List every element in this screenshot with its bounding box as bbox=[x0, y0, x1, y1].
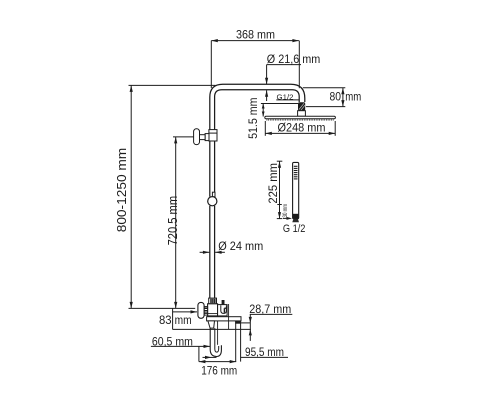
left reference drop line bbox=[172, 308, 174, 329]
dim 28.7 underline bbox=[250, 313, 292, 315]
mixer knob bbox=[198, 302, 204, 318]
dim 83 line bbox=[173, 311, 197, 313]
svg-text:720.5 mm: 720.5 mm bbox=[166, 196, 180, 246]
dim 248 left extension bbox=[264, 121, 266, 136]
dim 368 left extension bbox=[210, 41, 212, 88]
svg-text:mm: mm bbox=[345, 89, 361, 103]
diverter lever tab bbox=[222, 300, 225, 305]
dim 21.6 lower leader bbox=[266, 90, 268, 101]
dim 80 bottom extension bbox=[306, 106, 345, 108]
spout mount taper bbox=[208, 321, 215, 328]
dim 24 right arrow line bbox=[215, 251, 225, 253]
svg-text:Ø 24 mm: Ø 24 mm bbox=[218, 239, 263, 253]
hex collar flats bbox=[211, 299, 215, 303]
svg-text:G1/2: G1/2 bbox=[277, 92, 294, 101]
arrow 24 left bbox=[203, 251, 210, 254]
svg-text:80: 80 bbox=[330, 89, 342, 103]
clamp knob bbox=[194, 129, 200, 145]
slider ring bbox=[208, 197, 217, 206]
dim 30 foot leader bbox=[283, 217, 288, 219]
dim 51.5 line bbox=[262, 104, 264, 117]
dim 800-1250 line bbox=[130, 85, 132, 308]
arrow 720.5 top bbox=[174, 137, 177, 144]
diverter lever U bbox=[221, 305, 227, 313]
wall post right edge bbox=[240, 321, 242, 362]
dim 95.5 underline bbox=[241, 356, 288, 358]
dim 21.6 underline bbox=[267, 64, 301, 66]
svg-text:225 mm: 225 mm bbox=[266, 163, 280, 204]
dim 28.7 vertical line bbox=[249, 314, 251, 341]
arrow 800-1250 bottom bbox=[130, 302, 133, 309]
arrow 368 right bbox=[292, 39, 299, 42]
svg-text:51.5 mm: 51.5 mm bbox=[246, 97, 260, 138]
hand shower body bbox=[293, 162, 299, 218]
arrow 24 right bbox=[215, 251, 222, 254]
svg-text:mm: mm bbox=[175, 313, 192, 327]
shelf plate bbox=[207, 317, 241, 321]
slider clamp block bbox=[209, 130, 217, 141]
arrow 60.5 bbox=[204, 345, 211, 348]
dim 800-1250 bottom extension bbox=[129, 307, 196, 309]
dim 80 line bbox=[342, 88, 344, 107]
diverter rod line bbox=[217, 321, 219, 345]
mixer valve body bbox=[208, 304, 218, 316]
svg-text:G 1/2: G 1/2 bbox=[283, 223, 306, 235]
svg-text:60,5 mm: 60,5 mm bbox=[152, 335, 193, 349]
svg-text:800-1250 mm: 800-1250 mm bbox=[114, 148, 129, 232]
arrow 248 right bbox=[329, 132, 336, 135]
svg-text:83: 83 bbox=[159, 313, 172, 327]
arrow 28.7 down bbox=[249, 317, 252, 323]
arrow 720.5 bottom bbox=[174, 302, 177, 309]
dim 225 top crossbar bbox=[277, 160, 283, 162]
spout inner curve bbox=[215, 328, 219, 352]
arrow 225 bottom bbox=[278, 212, 281, 219]
dim 225 line bbox=[279, 161, 281, 218]
dim 30 tick bbox=[277, 204, 282, 206]
svg-text:Ø248 mm: Ø248 mm bbox=[278, 123, 326, 135]
arrow 248 left bbox=[265, 132, 272, 135]
arrow 80 top bbox=[341, 88, 344, 95]
svg-text:28,7 mm: 28,7 mm bbox=[249, 302, 291, 316]
wire riser middle segment bbox=[210, 141, 215, 197]
arrow 28.7 up bbox=[249, 329, 252, 335]
arrow 83 bbox=[191, 310, 198, 313]
hand shower spray stripes bbox=[294, 166, 298, 179]
arrow 95.5 bbox=[205, 356, 212, 359]
dim 80 top extension bbox=[303, 87, 345, 89]
mixer left stem bbox=[204, 307, 208, 316]
chamber side reference line bbox=[228, 304, 230, 329]
arrow 176 left bbox=[199, 360, 206, 363]
dim 800-1250 top extension bbox=[129, 84, 216, 86]
arrow 368 left bbox=[211, 39, 218, 42]
mixer hex collar bbox=[209, 298, 217, 304]
dim 51.5 top extension bbox=[261, 103, 298, 105]
dim 368 line bbox=[211, 40, 299, 42]
arrow 225 top bbox=[278, 161, 281, 168]
dim 24 left arrow line bbox=[200, 251, 210, 253]
dim 176 left extension bbox=[198, 346, 200, 361]
svg-text:95,5 mm: 95,5 mm bbox=[245, 345, 284, 359]
lower reference line bbox=[173, 328, 251, 330]
arrow 21.6 up bbox=[265, 90, 268, 97]
dim 28.7 upper reference bbox=[241, 322, 250, 324]
dim 176 line bbox=[199, 361, 236, 363]
svg-text:176 mm: 176 mm bbox=[201, 363, 237, 377]
diverter chamber bbox=[218, 305, 228, 316]
slider ring tab bbox=[212, 192, 215, 197]
G1/2 head underline bbox=[276, 99, 299, 101]
wire riser+arm outer outline bbox=[210, 84, 305, 129]
shower head disc bbox=[265, 116, 336, 119]
dim 368 right extension bbox=[298, 41, 300, 89]
shower arm ball joint bbox=[298, 102, 305, 111]
arrow 21.6 down bbox=[265, 78, 268, 85]
arrow 800-1250 top bbox=[130, 85, 133, 92]
dim 720.5 line bbox=[175, 137, 177, 309]
hose bracket bbox=[235, 321, 240, 324]
svg-text:Ø 21,6 mm: Ø 21,6 mm bbox=[267, 52, 321, 66]
clamp flange bbox=[205, 134, 209, 141]
dim 60.5 underline bbox=[151, 345, 210, 347]
dim 720.5 top extension bbox=[173, 136, 193, 138]
arrow 176 right bbox=[230, 360, 237, 363]
dim 248 line bbox=[265, 132, 335, 134]
shower head swivel nut bbox=[298, 111, 306, 117]
stem ribs bbox=[204, 308, 208, 313]
hand shower bottom band bbox=[293, 214, 299, 219]
wire riser+arm inner outline bbox=[215, 90, 300, 130]
arrow 51.5 top bbox=[262, 104, 265, 109]
wall post left edge bbox=[235, 321, 237, 362]
arrow 30 foot bbox=[287, 217, 293, 220]
svg-text:30 mm: 30 mm bbox=[282, 204, 289, 218]
hand shower connector feet bbox=[292, 219, 299, 223]
arrow 80 bottom bbox=[341, 100, 344, 107]
dim 95.5 left arrow line bbox=[203, 356, 217, 358]
arrow 51.5 bottom bbox=[262, 112, 265, 117]
shower head nozzle fringe bbox=[267, 119, 335, 121]
dim 21.6 upper leader bbox=[266, 65, 268, 84]
dim 225 bottom crossbar bbox=[277, 218, 283, 220]
svg-text:368 mm: 368 mm bbox=[236, 28, 275, 42]
spout outer curve bbox=[210, 328, 221, 356]
clamp stem bbox=[200, 135, 206, 140]
dim 248 right extension bbox=[334, 121, 336, 136]
wire riser lower segment bbox=[210, 206, 215, 298]
